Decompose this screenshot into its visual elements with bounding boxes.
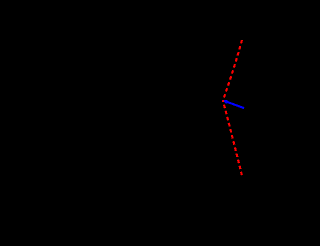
trajectory upper branch (red dotted) (223, 40, 242, 100)
trajectory lower branch (red dotted) (223, 100, 242, 175)
deflection arrow (blue, head at vertex) (222, 100, 244, 109)
